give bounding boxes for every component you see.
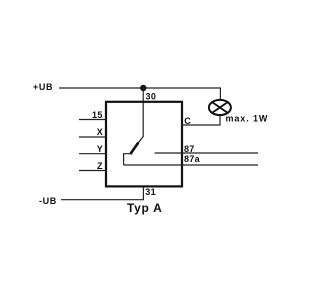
wire terminal 31 to -UB [61, 187, 144, 200]
switch lever from 30 to 87a contact [130, 137, 143, 155]
wire terminal C to lamp [181, 116, 220, 126]
pin label 15 [92, 110, 103, 120]
junction dot node 30 on +UB rail [140, 85, 146, 91]
svg-text:15: 15 [92, 110, 103, 120]
lamp rating label max. 1W [226, 114, 269, 124]
title Typ A [127, 201, 163, 215]
pin label 31 [145, 187, 156, 197]
pin label 87 [184, 144, 195, 154]
svg-text:Y: Y [97, 144, 103, 154]
svg-text:Z: Z [97, 161, 103, 171]
terminal Z wire [79, 170, 106, 172]
net -UB label [39, 196, 57, 206]
terminal 15 wire [79, 119, 106, 121]
pin label 87a [184, 154, 201, 164]
svg-text:+UB: +UB [33, 82, 53, 92]
relay box outline [106, 102, 182, 187]
pin label X [97, 127, 103, 137]
svg-text:X: X [97, 127, 103, 137]
svg-text:87: 87 [184, 144, 195, 154]
svg-text:87a: 87a [184, 154, 201, 164]
svg-text:C: C [184, 116, 191, 126]
svg-text:max. 1W: max. 1W [226, 114, 269, 124]
pin label 30 [146, 92, 157, 102]
svg-text:Typ A: Typ A [127, 201, 163, 215]
net +UB label [33, 82, 53, 92]
svg-text:30: 30 [146, 92, 157, 102]
lamp L1 symbol [209, 100, 231, 115]
wire terminal 87a [124, 164, 258, 166]
pin label Z [97, 161, 103, 171]
svg-text:31: 31 [145, 187, 156, 197]
terminal X wire [79, 136, 106, 138]
pin label Y [97, 144, 103, 154]
wire +UB supply rail to lamp [59, 88, 220, 101]
svg-text:-UB: -UB [39, 196, 57, 206]
87a contact bracket inside relay [124, 154, 133, 165]
terminal Y wire [79, 153, 106, 155]
wire node 30 into relay [142, 88, 144, 137]
wire terminal 87 [155, 152, 259, 154]
pin label C [184, 116, 191, 126]
